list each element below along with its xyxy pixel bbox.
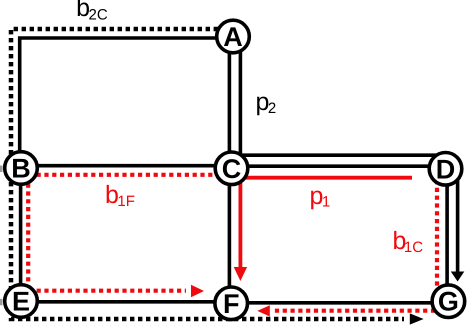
wire b2C: black dotted path A to top-left corner, down left edge, along bottom toward G bbox=[11, 29, 424, 325]
node B bbox=[5, 152, 38, 185]
svg-text:B: B bbox=[11, 153, 31, 183]
wire B-E black solid bbox=[19, 168, 23, 301]
wire B-C black solid bbox=[21, 164, 232, 168]
wire A-C double line (p2 edge), right line bbox=[239, 37, 243, 169]
stub at left edge near B bbox=[0, 166, 3, 173]
svg-text:D: D bbox=[436, 154, 456, 184]
wire B-C red dotted (b1F edge) bbox=[21, 173, 232, 177]
wire F-G black solid bbox=[231, 301, 448, 305]
svg-text:G: G bbox=[438, 287, 459, 317]
wire C-D double line, lower line bbox=[232, 164, 446, 168]
svg-text:F: F bbox=[223, 289, 240, 319]
wire E-F black solid bbox=[21, 300, 231, 304]
node A bbox=[217, 20, 250, 53]
svg-text:E: E bbox=[12, 286, 30, 316]
node F bbox=[215, 287, 248, 320]
stub at left edge near E bbox=[0, 299, 3, 306]
wire C-F black solid bbox=[228, 168, 232, 303]
wire p1: red solid from C toward D, flat end bbox=[232, 176, 413, 180]
wire B-E red dotted bbox=[26, 168, 30, 301]
wire D-G double line, left plain line bbox=[445, 169, 449, 294]
wire C-F red solid arrow pointing down at F bbox=[234, 168, 247, 281]
svg-text:C: C bbox=[222, 154, 242, 184]
wire b1C: red dotted from D down to corner then left to arrow at F bbox=[257, 180, 437, 317]
wire E-F red dotted with right arrow at F bbox=[21, 285, 204, 297]
svg-text:A: A bbox=[223, 22, 243, 52]
wire D-G double line, right line with down arrow at G bbox=[451, 169, 465, 282]
node E bbox=[5, 285, 38, 318]
node C bbox=[215, 152, 248, 185]
wire A-B: black solid L-shaped edge bbox=[20, 38, 218, 168]
node G bbox=[432, 285, 465, 318]
wire A-C double line (p2 edge), left line bbox=[228, 37, 232, 169]
wire C-D double line, upper line bbox=[232, 153, 446, 157]
node D bbox=[429, 153, 462, 186]
